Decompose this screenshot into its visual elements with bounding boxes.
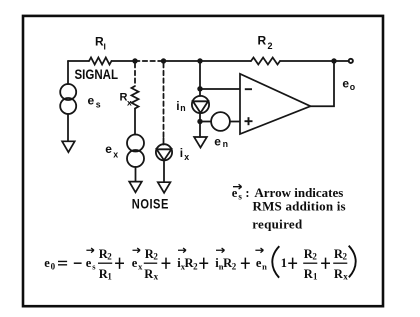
svg-text:2: 2 [193, 261, 198, 271]
svg-text:2: 2 [268, 41, 273, 51]
svg-text:2: 2 [312, 252, 317, 262]
svg-text:SIGNAL: SIGNAL [75, 67, 119, 82]
svg-text:1: 1 [313, 272, 318, 282]
svg-text:x: x [154, 272, 159, 282]
svg-text:x: x [127, 98, 132, 108]
svg-text:required: required [252, 217, 303, 232]
svg-text:NOISE: NOISE [132, 197, 169, 212]
svg-text:e: e [105, 142, 112, 156]
svg-text:s: s [238, 191, 242, 201]
svg-text:e: e [256, 256, 262, 270]
svg-text:x: x [184, 152, 189, 162]
svg-text:n: n [262, 261, 267, 271]
svg-text:o: o [350, 82, 356, 92]
svg-text:x: x [138, 261, 143, 271]
svg-text:e: e [88, 94, 95, 108]
svg-text:I: I [104, 42, 106, 52]
svg-text:n: n [223, 139, 228, 149]
svg-text:1: 1 [281, 256, 287, 270]
svg-text:e: e [232, 186, 238, 200]
svg-text:e: e [214, 134, 221, 148]
svg-text:i: i [176, 99, 179, 113]
svg-text:R: R [258, 34, 267, 48]
svg-text:e: e [44, 256, 50, 270]
svg-text:0: 0 [51, 261, 56, 271]
svg-text:2: 2 [343, 252, 348, 262]
svg-text:s: s [96, 100, 101, 110]
svg-text:RMS addition is: RMS addition is [253, 199, 346, 214]
svg-text:x: x [113, 150, 118, 160]
svg-text::: : [245, 186, 249, 200]
svg-text:n: n [180, 103, 185, 113]
svg-text:x: x [343, 272, 348, 282]
svg-text:e: e [132, 256, 138, 270]
svg-text:2: 2 [232, 261, 237, 271]
svg-text:i: i [180, 146, 183, 160]
svg-text:e: e [86, 256, 92, 270]
svg-text:2: 2 [153, 252, 158, 262]
svg-text:2: 2 [107, 252, 112, 262]
svg-text:e: e [342, 77, 349, 91]
svg-text:1: 1 [107, 272, 112, 282]
